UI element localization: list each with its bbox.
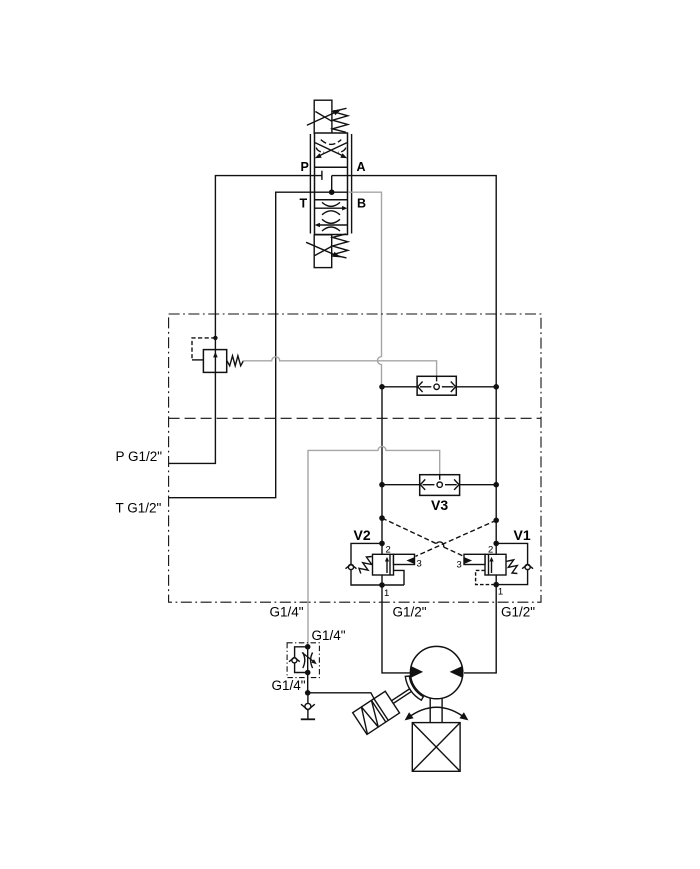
V2 internal pilot step bbox=[394, 570, 405, 585]
junction dot V2 port 2 bbox=[379, 541, 385, 547]
wire P line and riser bbox=[169, 176, 322, 464]
wire B pilot line (gray, hops vent line) bbox=[348, 192, 382, 387]
V1 pilot piston bbox=[464, 554, 485, 564]
load gearbox bbox=[412, 723, 460, 772]
junction dot right column at V3 bbox=[493, 482, 499, 488]
proportional solenoid S2 (bottom) bbox=[306, 235, 341, 268]
flow control check loop bbox=[295, 647, 308, 673]
wire brake release line bbox=[308, 693, 374, 699]
junction dot right column at shuttle bbox=[493, 384, 499, 390]
svg-text:3: 3 bbox=[417, 559, 422, 570]
shuttle valve body (upper) bbox=[417, 376, 456, 395]
brake shoe bbox=[405, 676, 423, 700]
V2 check valve bbox=[346, 564, 357, 569]
junction dot brake tee bbox=[305, 690, 311, 696]
motor port arrow left bbox=[411, 666, 424, 678]
wire V3 to left column bbox=[382, 484, 420, 486]
relief valve RV body bbox=[203, 350, 226, 373]
junction dot FC bottom bbox=[305, 670, 311, 676]
manifold divider (dashed) bbox=[169, 417, 541, 419]
svg-text:G1/4": G1/4" bbox=[312, 628, 346, 643]
return spring (top) bbox=[333, 108, 348, 132]
wire T line and riser bbox=[169, 192, 348, 498]
brake cylinder (spring applied) bbox=[353, 679, 419, 735]
V1 bypass check loop bbox=[496, 543, 527, 584]
junction dot left column at V3 bbox=[379, 482, 385, 488]
relief valve RV pilot loop (dashed) bbox=[192, 338, 215, 360]
svg-text:P G1/2": P G1/2" bbox=[116, 449, 163, 464]
flow control check valve bbox=[289, 657, 300, 663]
svg-text:V1: V1 bbox=[514, 527, 531, 543]
wire shuttle to right column bbox=[456, 386, 496, 388]
relief valve RV spring bbox=[227, 356, 243, 366]
svg-text:A: A bbox=[357, 160, 366, 174]
wire A line to right column and motor bbox=[332, 176, 497, 673]
svg-text:P: P bbox=[301, 160, 309, 174]
junction dot FC top bbox=[305, 644, 311, 650]
shuttle valve internals (upper) bbox=[418, 376, 456, 392]
shuttle valve V3 body bbox=[420, 475, 460, 496]
flow control main line bbox=[307, 647, 309, 673]
svg-text:G1/4": G1/4" bbox=[272, 678, 306, 693]
wire left column to motor bbox=[382, 387, 412, 673]
svg-text:V2: V2 bbox=[354, 527, 371, 543]
position 3: throttled return paths bbox=[315, 202, 348, 231]
V2 pilot piston bbox=[394, 554, 415, 564]
wire V3 to right column bbox=[460, 484, 497, 486]
return spring (bottom) bbox=[333, 234, 348, 258]
pilot line to V1 (dashed, with hop) bbox=[382, 518, 464, 556]
proportional solenoid S1 (top) bbox=[307, 100, 341, 133]
svg-text:3: 3 bbox=[457, 560, 462, 571]
svg-text:1: 1 bbox=[498, 587, 503, 598]
svg-text:T: T bbox=[300, 197, 308, 211]
svg-text:2: 2 bbox=[488, 545, 493, 556]
V2 main body bbox=[373, 554, 394, 575]
V1 spring bbox=[505, 557, 518, 574]
junction dot relief pilot tap bbox=[213, 336, 217, 340]
tank vent symbol bbox=[301, 718, 315, 720]
flow control throttle bbox=[303, 653, 313, 669]
infinite-positioning rails bbox=[310, 134, 351, 234]
flow control enclosure (dash-dot) bbox=[287, 643, 319, 678]
V1 internal pilot step (dashed) bbox=[476, 570, 497, 584]
motor port arrow right bbox=[450, 666, 463, 678]
junction dot V2 port 1 bbox=[379, 582, 385, 588]
relief valve RV flow arrow bbox=[213, 352, 218, 358]
junction dot left column at shuttle bbox=[379, 384, 385, 390]
shuttle valve V3 internals bbox=[420, 475, 459, 490]
pilot line V3 to brake port (gray) bbox=[308, 446, 440, 646]
flow control adjust arrow bbox=[302, 653, 317, 665]
neutral position: P blocked, A-T-B joined bbox=[322, 171, 335, 195]
junction dot pilot branch right bbox=[493, 518, 499, 524]
manifold block boundary (dash-dot) bbox=[169, 314, 541, 602]
svg-text:V3: V3 bbox=[431, 497, 448, 513]
pilot line to V2 (dashed) bbox=[416, 520, 497, 556]
relief vent line to shuttle (gray) bbox=[243, 357, 436, 377]
svg-text:G1/2": G1/2" bbox=[501, 605, 535, 620]
svg-text:G1/2": G1/2" bbox=[393, 605, 427, 620]
drain check valve bbox=[301, 693, 315, 720]
V2 bypass check loop bbox=[351, 543, 382, 585]
wire FC to brake tee bbox=[307, 673, 309, 693]
wire shuttle to left column bbox=[382, 386, 417, 388]
junction dot V1 port 2 bbox=[493, 541, 499, 547]
svg-text:2: 2 bbox=[386, 545, 391, 556]
svg-text:T G1/2": T G1/2" bbox=[116, 501, 162, 516]
valve body (3 positions) bbox=[315, 133, 348, 235]
svg-text:G1/4": G1/4" bbox=[270, 605, 304, 620]
motor shaft bbox=[430, 698, 442, 722]
junction dot V1 port 1 bbox=[493, 582, 499, 588]
junction dot pilot branch left bbox=[379, 515, 385, 521]
V2 spring bbox=[359, 557, 372, 574]
V1 check valve bbox=[522, 564, 533, 569]
oscillation arc bbox=[405, 707, 469, 720]
V1 main body bbox=[485, 554, 506, 575]
position 1: crossed throttled paths bbox=[315, 140, 347, 159]
hydraulic motor bbox=[410, 646, 462, 698]
svg-text:B: B bbox=[357, 197, 366, 211]
V2 bottom link bbox=[382, 584, 404, 586]
svg-text:1: 1 bbox=[384, 588, 389, 599]
